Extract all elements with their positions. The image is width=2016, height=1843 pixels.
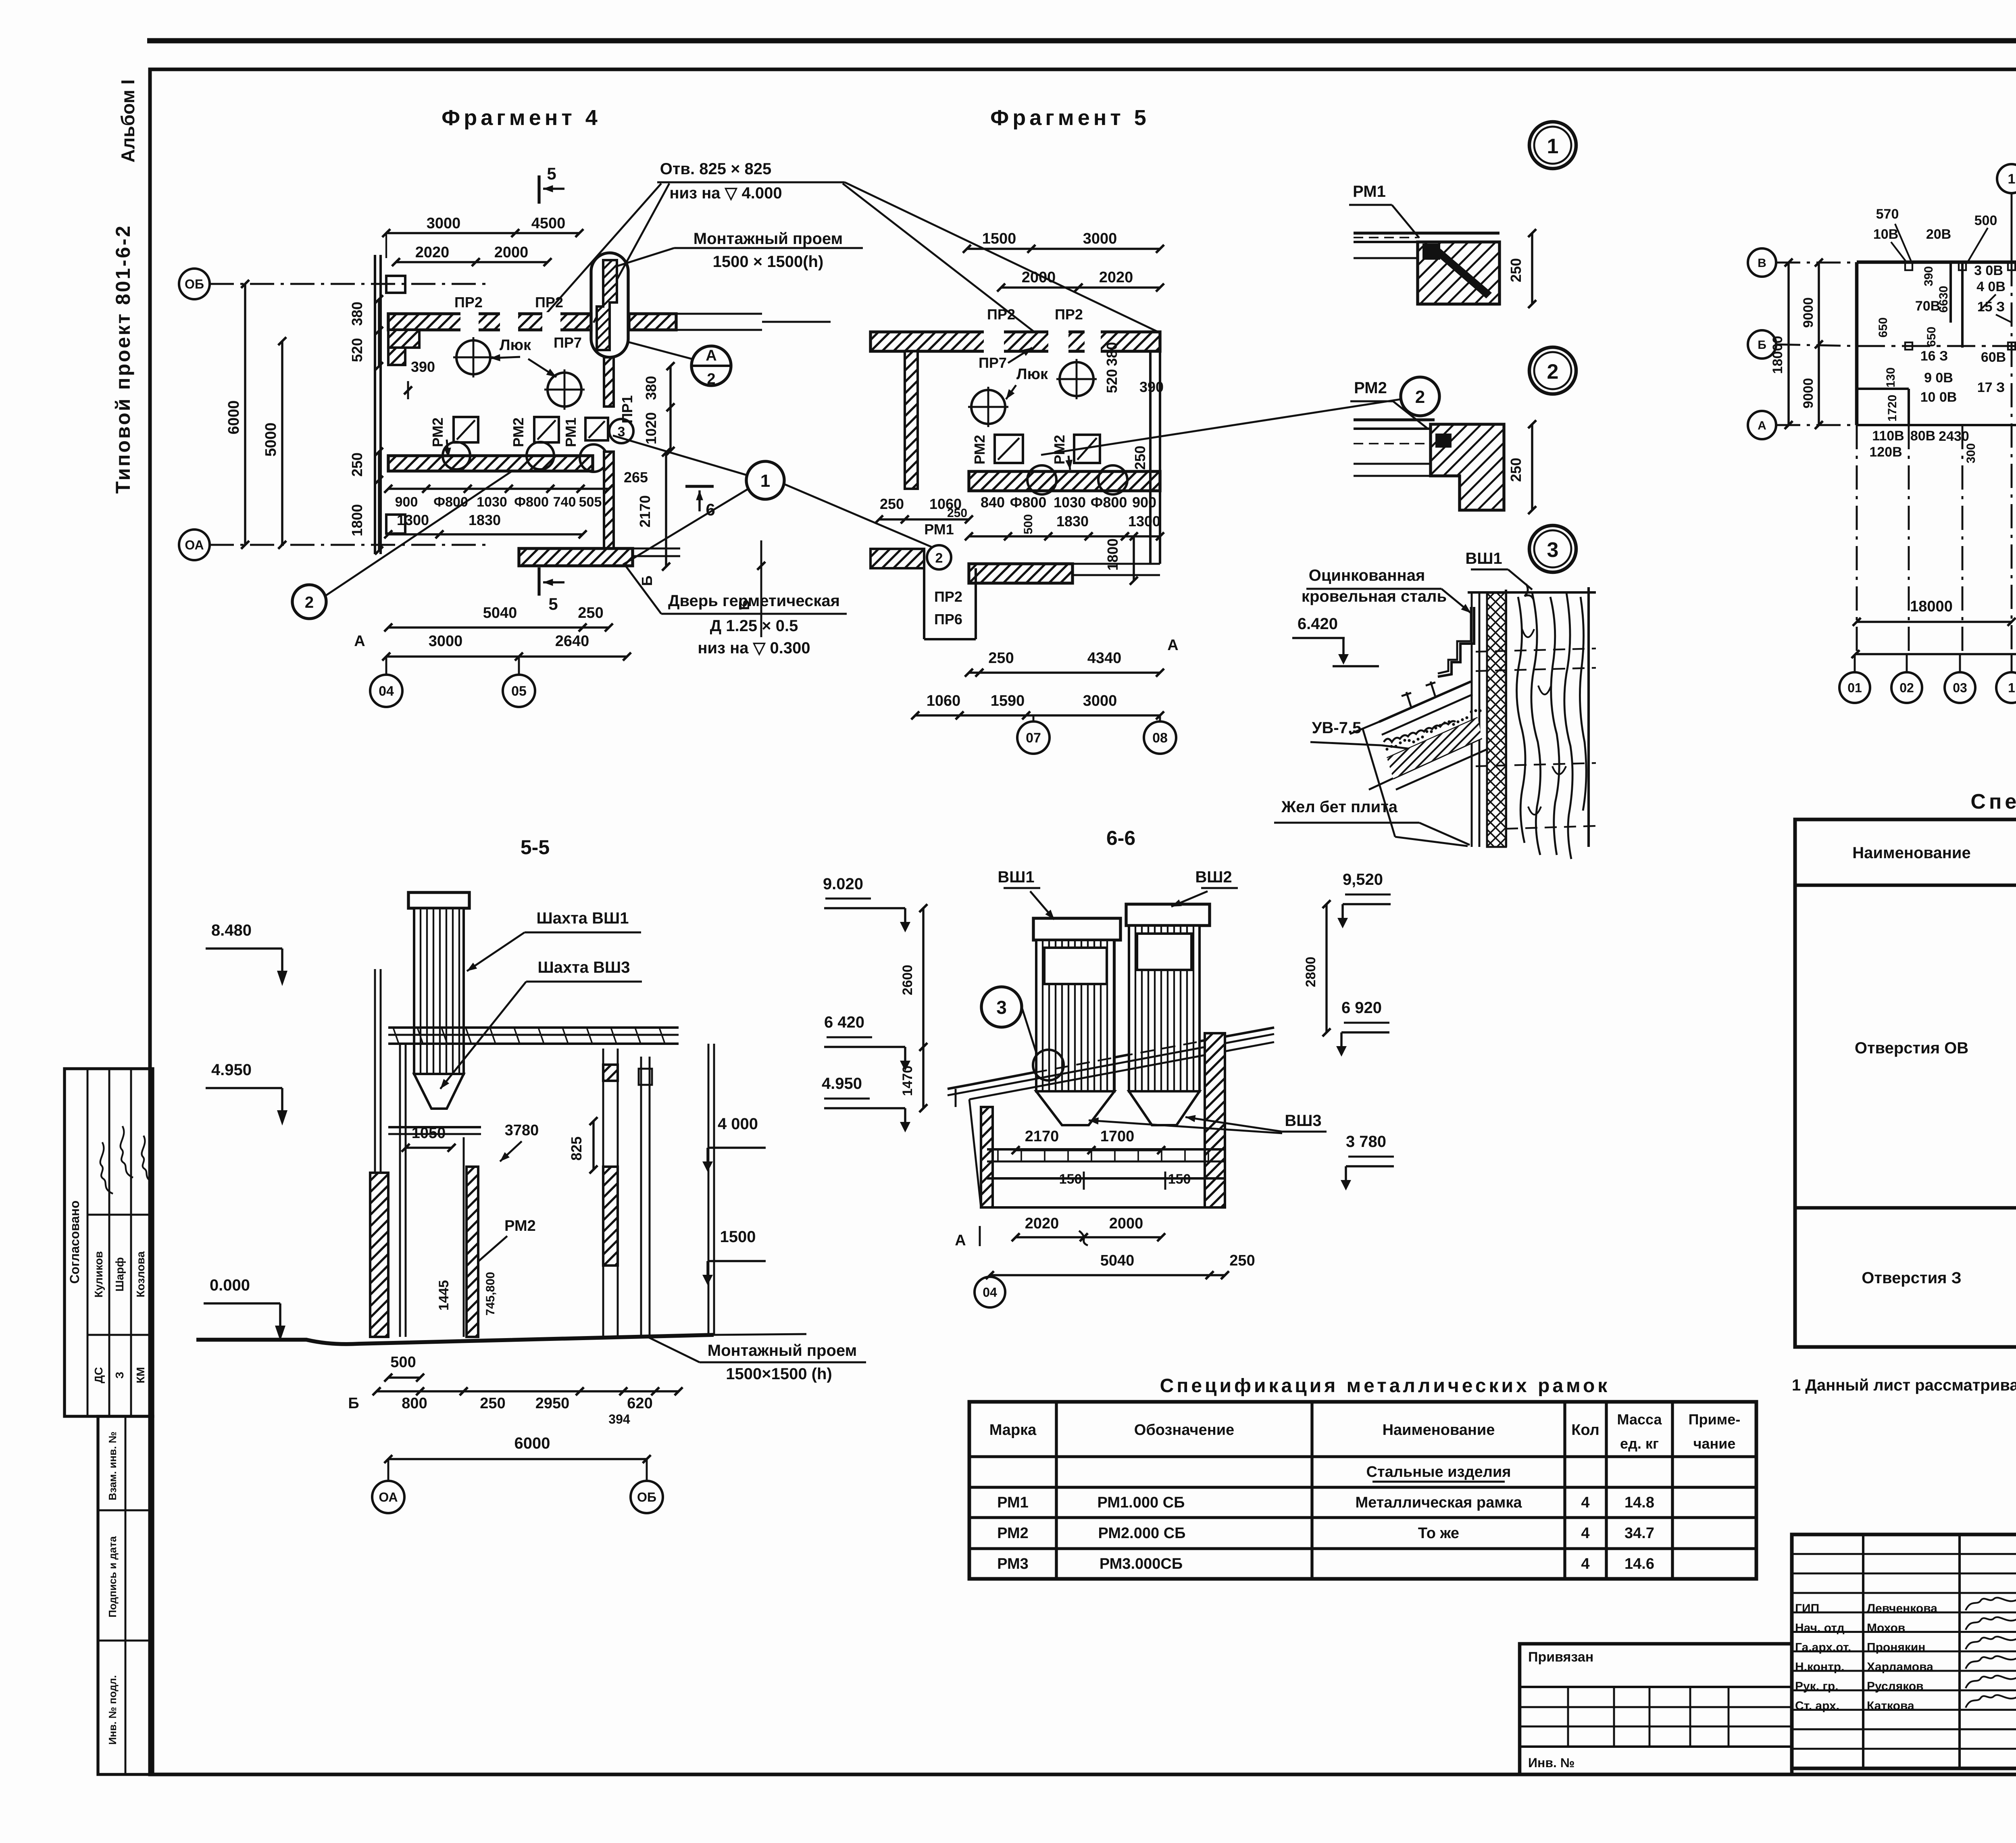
svg-text:4 0В: 4 0В xyxy=(1976,279,2006,294)
svg-text:Шарф: Шарф xyxy=(113,1257,126,1291)
right wall section 5-5 xyxy=(708,1044,710,1335)
svg-text:1 Данный лист рассматривать со: 1 Данный лист рассматривать совместно с … xyxy=(1792,1376,2016,1394)
svg-text:РМ1: РМ1 xyxy=(1353,183,1386,200)
flashing profile detail 3 xyxy=(1438,607,1474,677)
svg-text:250: 250 xyxy=(1508,258,1524,282)
hatch circle Люк 1 xyxy=(456,340,490,374)
svg-text:18000: 18000 xyxy=(1770,336,1785,374)
svg-text:1500×1500 (h): 1500×1500 (h) xyxy=(726,1365,832,1383)
svg-text:ПР6: ПР6 xyxy=(934,611,962,628)
plan interior wall axis 1 xyxy=(2011,262,2013,657)
plan interior wall a xyxy=(1949,262,1952,323)
svg-text:60В: 60В xyxy=(1981,350,2006,365)
svg-text:РМ1: РМ1 xyxy=(562,417,579,447)
svg-text:250: 250 xyxy=(578,605,603,621)
svg-text:Типовой проект 801-6-2: Типовой проект 801-6-2 xyxy=(112,224,134,494)
svg-text:120В: 120В xyxy=(1869,444,1902,460)
svg-text:2000: 2000 xyxy=(1109,1215,1143,1232)
svg-text:3780: 3780 xyxy=(505,1122,539,1139)
svg-text:Дверь герметическая: Дверь герметическая xyxy=(668,592,840,610)
dim 6000 vertical xyxy=(244,284,246,545)
svg-text:110В: 110В xyxy=(1872,428,1904,444)
svg-text:Монтажный проем: Монтажный проем xyxy=(694,230,843,248)
svg-text:1470: 1470 xyxy=(900,1065,915,1096)
svg-text:4.950: 4.950 xyxy=(211,1061,252,1079)
axis circle 1 plan top xyxy=(1997,164,2016,193)
svg-text:9.020: 9.020 xyxy=(823,875,863,893)
svg-text:Привязан: Привязан xyxy=(1528,1649,1593,1665)
svg-text:04: 04 xyxy=(983,1285,997,1300)
svg-text:1500 × 1500(h): 1500 × 1500(h) xyxy=(713,253,824,271)
svg-text:570: 570 xyxy=(1876,206,1899,222)
detail circle 3 s66 xyxy=(981,987,1022,1027)
svg-text:15 З: 15 З xyxy=(1977,299,2005,315)
plan left dim chain 18000 xyxy=(1787,263,1789,425)
svg-text:Ф800: Ф800 xyxy=(1010,494,1047,511)
svg-text:Фрагмент 4: Фрагмент 4 xyxy=(442,106,601,130)
svg-text:250: 250 xyxy=(1508,458,1524,482)
svg-text:3: 3 xyxy=(1547,538,1559,562)
svg-text:650: 650 xyxy=(2014,359,2016,379)
roof slope s66 xyxy=(969,1072,1036,1085)
spec frames table grid xyxy=(969,1402,1756,1579)
svg-text:1700: 1700 xyxy=(1100,1128,1135,1145)
svg-text:04: 04 xyxy=(379,684,394,699)
svg-text:2950: 2950 xyxy=(535,1395,570,1412)
stamp left rows xyxy=(1792,1553,2016,1555)
svg-text:80В: 80В xyxy=(1910,428,1935,444)
svg-text:2640: 2640 xyxy=(555,633,589,650)
svg-text:300: 300 xyxy=(1964,443,1978,463)
plan small leader lines left xyxy=(1895,224,1911,261)
svg-text:РМ3: РМ3 xyxy=(997,1555,1029,1572)
svg-text:4: 4 xyxy=(1581,1494,1589,1511)
svg-text:380: 380 xyxy=(349,302,365,326)
svg-text:900: 900 xyxy=(1132,494,1156,511)
axis ОА xyxy=(179,530,210,560)
plan bottom axis circles xyxy=(1839,672,1870,703)
frame РМ2 square 2 xyxy=(534,417,559,442)
svg-text:ВШ2: ВШ2 xyxy=(1195,868,1232,886)
shaft ВШ1 section 5-5 xyxy=(408,892,469,908)
svg-text:Люк: Люк xyxy=(500,337,531,354)
svg-text:Стальные изделия: Стальные изделия xyxy=(1366,1464,1511,1480)
svg-text:745,800: 745,800 xyxy=(484,1272,497,1316)
svg-text:ПР7: ПР7 xyxy=(554,334,582,351)
svg-text:520: 520 xyxy=(1104,369,1120,393)
svg-text:500: 500 xyxy=(1022,514,1035,534)
svg-text:Шахта ВШ1: Шахта ВШ1 xyxy=(537,909,629,927)
svg-text:3000: 3000 xyxy=(427,215,461,232)
detail circle А2 xyxy=(691,346,731,386)
svg-text:6 420: 6 420 xyxy=(824,1013,864,1031)
svg-text:Харламова: Харламова xyxy=(1867,1660,1933,1674)
svg-text:10 0В: 10 0В xyxy=(1920,390,1957,405)
svg-text:ПР2: ПР2 xyxy=(454,294,483,311)
svg-text:1720: 1720 xyxy=(1886,395,1899,422)
detail circle 2 f5 small xyxy=(927,545,951,569)
inner column a section 5-5 xyxy=(399,1044,401,1337)
svg-text:Козлова: Козлова xyxy=(134,1251,147,1297)
frame РМ2 f5 square 2 xyxy=(1074,435,1100,463)
roof left tail detail 3 xyxy=(1363,729,1395,837)
detail circle 2 left xyxy=(292,585,326,619)
svg-text:ед. кг: ед. кг xyxy=(1620,1435,1659,1452)
svg-text:394: 394 xyxy=(608,1412,630,1426)
svg-text:1830: 1830 xyxy=(469,512,501,528)
svg-text:0.000: 0.000 xyxy=(210,1276,250,1294)
svg-text:Инв. №: Инв. № xyxy=(1528,1755,1574,1770)
svg-text:3 780: 3 780 xyxy=(1346,1133,1386,1151)
svg-text:6000: 6000 xyxy=(514,1434,550,1452)
dim 5000 vertical xyxy=(281,341,283,545)
axis circle 08 xyxy=(1144,721,1176,754)
svg-text:2430: 2430 xyxy=(1939,429,1969,444)
svg-text:1300: 1300 xyxy=(397,512,429,528)
section mark 5 top xyxy=(537,175,540,204)
svg-text:6-6: 6-6 xyxy=(1106,827,1135,849)
svg-text:Куликов: Куликов xyxy=(92,1251,105,1297)
floor s66 xyxy=(987,1148,1225,1151)
plan left dim chain 9000 9000 xyxy=(1818,263,1820,425)
svg-text:500: 500 xyxy=(390,1354,416,1371)
svg-text:чание: чание xyxy=(1693,1435,1736,1452)
svg-text:1030: 1030 xyxy=(477,494,507,510)
svg-text:Пронякин: Пронякин xyxy=(1867,1641,1925,1654)
svg-text:2800: 2800 xyxy=(1303,957,1318,987)
wall left fragment 4 xyxy=(374,255,376,554)
detail circle 2 big xyxy=(1401,377,1439,416)
svg-text:03: 03 xyxy=(1953,681,1967,695)
svg-text:5-5: 5-5 xyxy=(521,836,550,859)
floor circles xyxy=(443,442,470,469)
svg-text:3 0В: 3 0В xyxy=(1974,263,2003,278)
svg-text:1060: 1060 xyxy=(927,692,961,709)
svg-text:Б: Б xyxy=(348,1395,359,1412)
svg-text:РМ2: РМ2 xyxy=(504,1218,536,1234)
axis Б extension line xyxy=(760,540,762,637)
spec openings table grid xyxy=(1795,819,2016,1347)
svg-text:9000: 9000 xyxy=(1801,297,1816,328)
frame РМ2 f5 square 1 xyxy=(995,435,1023,463)
svg-text:8.480: 8.480 xyxy=(211,921,252,939)
svg-text:Кол: Кол xyxy=(1571,1422,1599,1439)
plan interior wall b xyxy=(1961,262,1964,348)
svg-text:Монтажный проем: Монтажный проем xyxy=(708,1342,857,1359)
svg-text:ПР2: ПР2 xyxy=(987,306,1015,323)
svg-text:1: 1 xyxy=(760,471,770,491)
right column section 5-5 xyxy=(640,1057,642,1337)
approval table Согласовано xyxy=(65,1069,153,1416)
dim chain right s66 xyxy=(1325,904,1327,1032)
svg-text:Спецификация металлических р: Спецификация металлических рамок xyxy=(1160,1375,1610,1397)
plan outline left edge xyxy=(1855,262,1859,425)
svg-text:900: 900 xyxy=(395,494,418,510)
hatch circle Люк f5 2 xyxy=(971,390,1005,424)
bolts on roof detail 3 xyxy=(1406,692,1411,707)
svg-text:825: 825 xyxy=(568,1136,585,1161)
svg-text:1: 1 xyxy=(2008,171,2016,187)
svg-text:6 920: 6 920 xyxy=(1341,999,1382,1017)
svg-text:Русляков: Русляков xyxy=(1867,1680,1924,1693)
detail 2 drawing xyxy=(1354,418,1435,421)
svg-text:2020: 2020 xyxy=(415,244,450,261)
dim 380 520 vertical xyxy=(378,299,380,366)
ceiling slab section 5-5 xyxy=(388,1026,679,1029)
svg-text:Инв. № подл.: Инв. № подл. xyxy=(106,1675,119,1745)
svg-text:1020: 1020 xyxy=(643,412,659,444)
svg-text:250: 250 xyxy=(880,496,904,512)
svg-text:08: 08 xyxy=(1152,730,1168,746)
svg-text:УВ-7.5: УВ-7.5 xyxy=(1312,719,1362,737)
svg-text:ПР2: ПР2 xyxy=(1055,306,1083,323)
svg-text:250: 250 xyxy=(1229,1252,1255,1269)
svg-text:Приме-: Приме- xyxy=(1689,1411,1741,1428)
svg-text:5040: 5040 xyxy=(483,605,517,621)
svg-text:1030: 1030 xyxy=(1054,494,1086,511)
svg-text:РМ2: РМ2 xyxy=(971,435,988,465)
svg-text:Обозначение: Обозначение xyxy=(1134,1422,1234,1439)
svg-text:Отв. 825 × 825: Отв. 825 × 825 xyxy=(660,160,772,178)
svg-text:1500: 1500 xyxy=(720,1228,756,1246)
svg-text:1050: 1050 xyxy=(412,1125,446,1142)
svg-text:РМ2: РМ2 xyxy=(1354,379,1387,397)
svg-text:390: 390 xyxy=(411,359,435,375)
svg-text:Масса: Масса xyxy=(1617,1411,1662,1428)
svg-text:РМ3.000СБ: РМ3.000СБ xyxy=(1100,1555,1183,1572)
shelf section 5-5 xyxy=(388,1126,481,1128)
svg-text:390: 390 xyxy=(1922,266,1935,286)
svg-text:6.420: 6.420 xyxy=(1297,615,1338,633)
svg-text:800: 800 xyxy=(402,1395,427,1412)
svg-text:Согласовано: Согласовано xyxy=(67,1201,82,1284)
stamp left columns xyxy=(1862,1534,1864,1768)
svg-text:Б: Б xyxy=(639,575,655,586)
svg-text:250: 250 xyxy=(480,1395,505,1412)
axis circle ОБ s55 xyxy=(631,1481,663,1513)
svg-text:265: 265 xyxy=(624,469,648,486)
svg-text:07: 07 xyxy=(1026,730,1041,746)
svg-text:01: 01 xyxy=(1847,681,1862,695)
hatch circle Люк 2 xyxy=(548,373,581,407)
svg-text:17 З: 17 З xyxy=(1977,380,2005,395)
shaft ВШ1 s66 xyxy=(1033,918,1120,940)
svg-text:4.950: 4.950 xyxy=(822,1075,862,1092)
svg-text:2: 2 xyxy=(1415,387,1425,407)
svg-text:2: 2 xyxy=(707,371,715,388)
svg-text:Мохов: Мохов xyxy=(1867,1621,1905,1635)
ground line xyxy=(196,1335,714,1344)
eaves left s66 xyxy=(948,1085,969,1089)
detail circle 2 xyxy=(1529,347,1576,394)
svg-text:2600: 2600 xyxy=(900,965,915,995)
svg-text:В: В xyxy=(1758,256,1766,270)
axis circle 04 s66 xyxy=(975,1277,1005,1307)
svg-text:500: 500 xyxy=(1974,213,1997,228)
svg-text:Нач. отд: Нач. отд xyxy=(1795,1621,1845,1635)
detail circle 1 big xyxy=(746,461,784,499)
svg-text:З: З xyxy=(113,1372,126,1379)
svg-text:Левченкова: Левченкова xyxy=(1867,1602,1937,1615)
svg-text:Фрагмент 5: Фрагмент 5 xyxy=(990,106,1150,130)
approval signatures xyxy=(100,1142,113,1194)
svg-text:380: 380 xyxy=(643,376,659,400)
svg-text:То же: То же xyxy=(1418,1525,1459,1542)
svg-text:2000: 2000 xyxy=(494,244,529,261)
svg-text:Марка: Марка xyxy=(989,1422,1037,1439)
dim 250 1800 vertical xyxy=(378,452,380,550)
svg-text:05: 05 xyxy=(511,684,527,699)
svg-text:А: А xyxy=(955,1232,966,1249)
leader lines to openings xyxy=(541,183,661,319)
svg-text:Д 1.25 × 0.5: Д 1.25 × 0.5 xyxy=(710,617,798,635)
svg-text:ПР2: ПР2 xyxy=(934,588,962,605)
section mark 6 right xyxy=(685,485,714,488)
hatch circle Люк f5 1 xyxy=(1060,362,1093,396)
column stub top left xyxy=(386,276,405,293)
svg-text:А: А xyxy=(354,633,365,650)
svg-text:Н.контр.: Н.контр. xyxy=(1795,1660,1844,1674)
svg-text:3000: 3000 xyxy=(429,633,463,650)
inventory margin table xyxy=(98,1416,153,1774)
svg-text:Ф800: Ф800 xyxy=(433,494,468,510)
gravel dots detail 3 xyxy=(1385,709,1481,751)
svg-text:1: 1 xyxy=(1547,135,1559,158)
svg-text:620: 620 xyxy=(627,1395,652,1412)
svg-text:ВШ1: ВШ1 xyxy=(998,868,1034,886)
svg-text:840: 840 xyxy=(981,494,1005,511)
svg-text:740: 740 xyxy=(553,494,576,510)
svg-text:РМ1: РМ1 xyxy=(924,521,954,538)
svg-text:4340: 4340 xyxy=(1087,650,1122,667)
page top rule xyxy=(147,38,2016,44)
svg-text:02: 02 xyxy=(1899,681,1914,695)
svg-text:16 З: 16 З xyxy=(1920,348,1948,364)
detail circle 1 xyxy=(1529,122,1576,169)
svg-text:14.8: 14.8 xyxy=(1624,1494,1654,1511)
svg-text:Ф800: Ф800 xyxy=(514,494,549,510)
dashed ties detail 3 xyxy=(1476,648,1596,652)
svg-text:650: 650 xyxy=(1925,327,1938,347)
svg-text:150: 150 xyxy=(1168,1172,1191,1187)
svg-text:РМ1: РМ1 xyxy=(997,1494,1029,1511)
svg-text:2: 2 xyxy=(305,594,314,611)
svg-text:380: 380 xyxy=(1104,342,1120,366)
svg-text:4 000: 4 000 xyxy=(718,1115,758,1133)
plan wall Б row xyxy=(1857,345,2016,347)
svg-text:РМ2: РМ2 xyxy=(429,417,446,447)
svg-text:9 0В: 9 0В xyxy=(1924,370,1953,386)
svg-text:РМ2.000 СБ: РМ2.000 СБ xyxy=(1098,1525,1186,1542)
svg-text:Каткова: Каткова xyxy=(1867,1699,1914,1713)
svg-text:5: 5 xyxy=(547,164,556,183)
svg-text:РМ2: РМ2 xyxy=(1051,435,1068,465)
svg-text:6000: 6000 xyxy=(225,400,242,435)
svg-text:А: А xyxy=(1758,419,1766,432)
svg-text:9000: 9000 xyxy=(1801,378,1816,409)
floor circles f5 xyxy=(1027,465,1056,494)
svg-text:250: 250 xyxy=(988,650,1014,667)
svg-text:ПР2: ПР2 xyxy=(535,294,563,311)
svg-text:Альбом I: Альбом I xyxy=(117,79,138,163)
plan room bottom left xyxy=(1857,388,1909,390)
svg-text:520: 520 xyxy=(349,338,365,362)
svg-text:10В: 10В xyxy=(1873,227,1898,242)
svg-text:1800: 1800 xyxy=(349,504,365,536)
svg-text:390: 390 xyxy=(1139,379,1164,395)
svg-text:ОА: ОА xyxy=(185,538,204,552)
svg-text:ВШ1: ВШ1 xyxy=(1465,550,1502,567)
svg-text:20В: 20В xyxy=(1926,227,1951,242)
detail circle 3 small xyxy=(609,419,633,443)
svg-text:ПР7: ПР7 xyxy=(979,354,1007,371)
axis circle ОА s55 xyxy=(372,1481,404,1513)
svg-text:Наименование: Наименование xyxy=(1383,1422,1495,1439)
svg-text:5: 5 xyxy=(548,594,558,613)
svg-text:РМ2: РМ2 xyxy=(997,1525,1029,1542)
air gap strip detail 3 xyxy=(1471,593,1473,847)
column stub bottom left xyxy=(386,515,405,534)
svg-text:3: 3 xyxy=(996,997,1007,1018)
svg-text:1300: 1300 xyxy=(1128,513,1160,530)
svg-text:Подпись и дата: Подпись и дата xyxy=(106,1536,119,1618)
svg-text:ОА: ОА xyxy=(379,1490,398,1505)
svg-text:РМ1.000 СБ: РМ1.000 СБ xyxy=(1098,1494,1185,1511)
svg-text:2000: 2000 xyxy=(1022,269,1056,286)
svg-text:2020: 2020 xyxy=(1099,269,1133,286)
section mark 5 bottom xyxy=(537,567,540,596)
svg-text:А: А xyxy=(706,347,716,364)
shaft ВШ2 s66 xyxy=(1126,904,1210,926)
dim chain left s66 xyxy=(922,908,924,1108)
svg-text:1830: 1830 xyxy=(1056,513,1089,530)
plan left axis circles xyxy=(1748,248,1776,277)
detail mark circle s66 xyxy=(1033,1050,1064,1080)
svg-text:низ на ▽ 4.000: низ на ▽ 4.000 xyxy=(669,184,782,202)
svg-text:18000: 18000 xyxy=(1910,598,1953,615)
svg-text:4500: 4500 xyxy=(531,215,566,232)
svg-text:ДС: ДС xyxy=(92,1367,105,1383)
svg-text:2020: 2020 xyxy=(1025,1215,1059,1232)
pit outline below f5 xyxy=(923,568,925,639)
wood panel detail 3 xyxy=(1505,590,1507,847)
svg-text:Ст. арх.: Ст. арх. xyxy=(1795,1699,1839,1713)
svg-text:ОБ: ОБ xyxy=(637,1490,656,1505)
svg-text:низ на ▽ 0.300: низ на ▽ 0.300 xyxy=(698,639,810,657)
svg-text:3000: 3000 xyxy=(1083,692,1117,709)
axis ОБ xyxy=(179,269,210,299)
axis circle 04 xyxy=(370,675,402,707)
mounting opening stadium xyxy=(591,253,628,357)
svg-text:РМ2: РМ2 xyxy=(510,417,527,447)
svg-text:Рук. гр.: Рук. гр. xyxy=(1795,1680,1839,1693)
svg-text:2: 2 xyxy=(1547,360,1559,384)
wall right fragment 5 xyxy=(1149,351,1152,564)
svg-text:130: 130 xyxy=(1884,367,1897,388)
svg-text:4: 4 xyxy=(1581,1525,1589,1542)
roof sandwich detail 3 xyxy=(1379,682,1471,722)
svg-text:А: А xyxy=(1167,637,1178,654)
svg-text:Металлическая рамка: Металлическая рамка xyxy=(1356,1494,1522,1511)
svg-text:Люк: Люк xyxy=(1016,366,1048,383)
svg-text:Отверстия ОВ: Отверстия ОВ xyxy=(1855,1039,1968,1057)
svg-text:70В: 70В xyxy=(1915,298,1940,314)
svg-text:5040: 5040 xyxy=(1100,1252,1135,1269)
plan top edge column squares xyxy=(1905,263,1912,270)
svg-text:1500: 1500 xyxy=(982,230,1016,247)
svg-text:14.6: 14.6 xyxy=(1624,1555,1654,1572)
svg-text:1590: 1590 xyxy=(991,692,1025,709)
